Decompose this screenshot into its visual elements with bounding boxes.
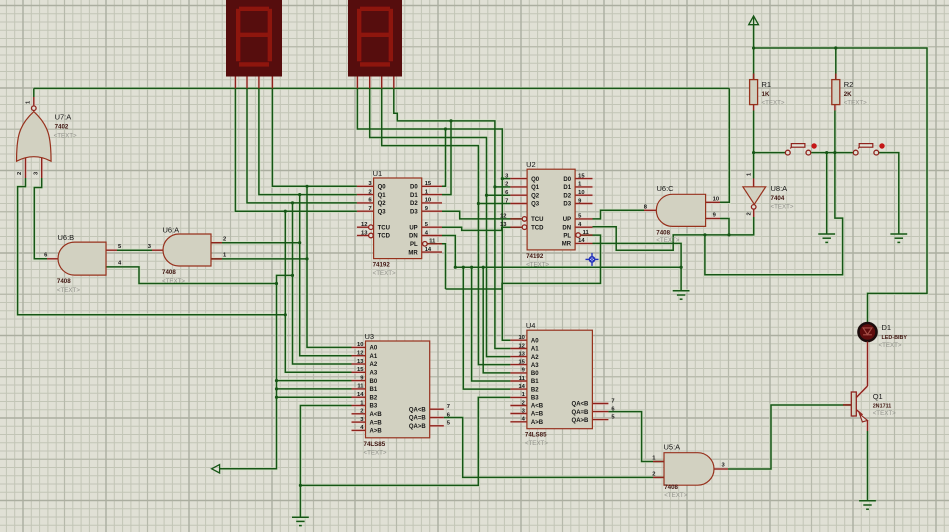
svg-text:A3: A3	[531, 363, 539, 369]
svg-text:7: 7	[611, 398, 614, 404]
svg-text:2: 2	[360, 409, 363, 415]
svg-text:U5:A: U5:A	[664, 443, 681, 452]
svg-text:74192: 74192	[526, 253, 544, 260]
svg-text:MR: MR	[408, 250, 418, 256]
svg-text:D3: D3	[563, 202, 571, 208]
svg-text:A=B: A=B	[531, 412, 544, 418]
svg-text:10: 10	[518, 335, 524, 341]
svg-text:14: 14	[518, 384, 525, 390]
svg-text:D1: D1	[882, 323, 892, 332]
svg-text:10: 10	[357, 342, 363, 348]
svg-text:D0: D0	[410, 185, 418, 191]
svg-text:D2: D2	[563, 193, 571, 199]
svg-text:13: 13	[518, 351, 525, 357]
svg-text:12: 12	[500, 214, 506, 220]
svg-text:Q3: Q3	[531, 202, 540, 208]
svg-text:U4: U4	[526, 321, 536, 330]
svg-text:74LS85: 74LS85	[525, 432, 547, 439]
svg-text:A=B: A=B	[370, 420, 383, 426]
svg-text:2K: 2K	[844, 91, 852, 98]
svg-text:TCD: TCD	[378, 234, 391, 240]
svg-text:A0: A0	[531, 338, 539, 344]
svg-text:7: 7	[505, 198, 508, 204]
svg-text:<TEXT>: <TEXT>	[525, 440, 548, 447]
svg-text:Q2: Q2	[378, 201, 387, 207]
svg-text:TCD: TCD	[531, 225, 544, 231]
svg-text:1K: 1K	[762, 91, 770, 98]
svg-text:7408: 7408	[656, 229, 670, 236]
svg-text:11: 11	[519, 376, 526, 382]
svg-text:7402: 7402	[55, 124, 69, 131]
svg-text:<TEXT>: <TEXT>	[844, 100, 867, 107]
svg-text:QA>B: QA>B	[572, 418, 590, 424]
svg-text:7408: 7408	[664, 484, 678, 491]
svg-text:2: 2	[747, 212, 753, 215]
svg-text:TCU: TCU	[378, 225, 390, 231]
svg-text:7408: 7408	[162, 269, 176, 276]
svg-text:B0: B0	[370, 379, 378, 385]
svg-text:B2: B2	[370, 395, 378, 401]
svg-text:2: 2	[368, 189, 371, 195]
svg-text:<TEXT>: <TEXT>	[364, 449, 387, 456]
svg-text:UP: UP	[563, 217, 571, 223]
svg-text:11: 11	[429, 239, 436, 245]
svg-text:B3: B3	[531, 396, 539, 402]
svg-text:QA<B: QA<B	[572, 402, 590, 408]
svg-text:A3: A3	[370, 371, 378, 377]
svg-text:14: 14	[357, 392, 364, 398]
svg-text:U8:A: U8:A	[771, 184, 788, 193]
svg-text:D1: D1	[563, 185, 571, 191]
svg-text:U2: U2	[526, 160, 536, 169]
svg-text:7408: 7408	[57, 278, 71, 285]
svg-text:10: 10	[425, 198, 431, 204]
svg-text:U1: U1	[373, 169, 383, 178]
svg-text:<TEXT>: <TEXT>	[526, 261, 549, 268]
svg-text:2: 2	[17, 172, 23, 175]
svg-text:2: 2	[505, 182, 508, 188]
svg-text:B3: B3	[370, 404, 378, 410]
svg-text:U6:B: U6:B	[58, 233, 75, 242]
svg-text:U6:C: U6:C	[657, 184, 675, 193]
svg-text:PL: PL	[563, 233, 571, 239]
svg-text:A>B: A>B	[531, 420, 544, 426]
svg-text:A1: A1	[370, 354, 378, 360]
svg-text:R1: R1	[762, 80, 772, 89]
svg-text:14: 14	[578, 238, 585, 244]
svg-text:LED-BIBY: LED-BIBY	[882, 335, 908, 341]
svg-text:2: 2	[223, 236, 226, 242]
svg-text:11: 11	[583, 230, 590, 236]
svg-text:<TEXT>: <TEXT>	[57, 287, 80, 294]
svg-text:7404: 7404	[771, 195, 785, 202]
svg-text:B1: B1	[370, 387, 378, 393]
svg-text:B2: B2	[531, 387, 539, 393]
svg-text:Q2: Q2	[531, 193, 540, 199]
svg-text:QA>B: QA>B	[409, 424, 427, 430]
svg-text:<TEXT>: <TEXT>	[373, 270, 396, 277]
svg-text:74192: 74192	[373, 262, 391, 269]
svg-text:15: 15	[357, 367, 364, 373]
svg-text:Q1: Q1	[873, 392, 883, 401]
svg-text:<TEXT>: <TEXT>	[873, 410, 896, 417]
svg-text:7: 7	[368, 206, 371, 212]
svg-text:12: 12	[361, 222, 367, 228]
svg-text:D0: D0	[563, 177, 571, 183]
svg-text:15: 15	[518, 359, 525, 365]
svg-text:10: 10	[578, 190, 584, 196]
svg-text:R2: R2	[844, 80, 854, 89]
svg-text:A<B: A<B	[370, 412, 383, 418]
svg-text:<TEXT>: <TEXT>	[54, 133, 77, 140]
svg-text:U3: U3	[365, 332, 375, 341]
svg-text:Q1: Q1	[378, 193, 387, 199]
svg-text:Q0: Q0	[531, 177, 540, 183]
svg-text:<TEXT>: <TEXT>	[879, 342, 902, 349]
svg-text:13: 13	[357, 359, 364, 365]
svg-text:A2: A2	[370, 362, 378, 368]
svg-text:11: 11	[357, 384, 364, 390]
svg-text:A0: A0	[370, 346, 378, 352]
svg-text:13: 13	[361, 230, 368, 236]
svg-text:2: 2	[522, 400, 525, 406]
svg-text:PL: PL	[410, 242, 418, 248]
svg-text:74LS85: 74LS85	[364, 441, 386, 448]
svg-text:7: 7	[447, 404, 450, 410]
svg-text:2N1711: 2N1711	[873, 403, 892, 409]
svg-text:B0: B0	[531, 371, 539, 377]
svg-text:<TEXT>: <TEXT>	[162, 278, 185, 285]
svg-text:<TEXT>: <TEXT>	[771, 204, 794, 211]
svg-text:B1: B1	[531, 379, 539, 385]
svg-text:10: 10	[713, 197, 719, 203]
svg-text:Q3: Q3	[378, 209, 387, 215]
svg-text:D3: D3	[410, 209, 418, 215]
svg-text:<TEXT>: <TEXT>	[656, 237, 679, 244]
svg-text:QA<B: QA<B	[409, 407, 427, 413]
svg-text:QA=B: QA=B	[572, 410, 590, 416]
svg-text:DN: DN	[562, 225, 571, 231]
svg-text:UP: UP	[409, 225, 417, 231]
svg-text:13: 13	[500, 222, 507, 228]
svg-text:A<B: A<B	[531, 404, 544, 410]
svg-text:<TEXT>: <TEXT>	[762, 100, 785, 107]
svg-text:12: 12	[518, 343, 524, 349]
svg-text:U7:A: U7:A	[55, 113, 72, 122]
svg-text:2: 2	[652, 471, 655, 477]
svg-text:Q1: Q1	[531, 185, 540, 191]
svg-text:U6:A: U6:A	[163, 226, 180, 235]
svg-text:15: 15	[425, 181, 432, 187]
svg-text:D2: D2	[410, 201, 418, 207]
svg-text:TCU: TCU	[531, 217, 543, 223]
svg-text:14: 14	[425, 247, 432, 253]
svg-text:DN: DN	[409, 234, 418, 240]
svg-text:A2: A2	[531, 355, 539, 361]
svg-text:<TEXT>: <TEXT>	[664, 492, 687, 499]
svg-text:Q0: Q0	[378, 185, 387, 191]
svg-text:D1: D1	[410, 193, 418, 199]
svg-text:A1: A1	[531, 347, 539, 353]
svg-text:A>B: A>B	[370, 429, 383, 435]
svg-text:15: 15	[578, 173, 585, 179]
svg-text:MR: MR	[562, 242, 572, 248]
svg-text:QA=B: QA=B	[409, 416, 427, 422]
svg-text:12: 12	[357, 351, 363, 357]
